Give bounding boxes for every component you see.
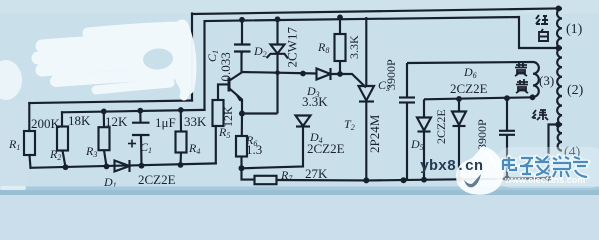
wire: gate wire from collector corner: [242, 72, 317, 74]
wire: outer top rail: [192, 9, 557, 15]
node winding tap (white): [556, 45, 562, 51]
svg-text:2CZ2E: 2CZ2E: [434, 109, 448, 144]
svg-text:(1): (1): [566, 22, 583, 37]
wire: green tap drop: [549, 125, 559, 179]
label yellow wire 1 (huang): [515, 62, 527, 76]
resistor R7 (inline): [255, 176, 277, 184]
svg-text:2CZ2E: 2CZ2E: [138, 172, 176, 187]
white correction scribble over top-left: [38, 26, 190, 96]
node D6 bottom on rail: [456, 176, 462, 182]
node T2 cathode on rail: [363, 177, 369, 183]
node C1-bottom: [139, 163, 145, 169]
white dash bottom-left: [0, 186, 26, 190]
logo: chinese title glyphs (dian zi fa shao you) white halo: [503, 156, 588, 177]
node D2 top on inner rail: [275, 16, 281, 22]
wire: emitter node to zener bottom: [242, 112, 278, 114]
logo: chinese title glyphs blue body: [503, 156, 588, 177]
resistor R3: [99, 111, 110, 166]
wire: R1 bottom lead: [30, 155, 31, 168]
node winding3 bottom: [530, 94, 536, 100]
thyristor T2 (2P24M): [359, 17, 375, 180]
diode D3 (inline, pointing right): [317, 68, 331, 80]
zener diode D2 (2CW17): [267, 19, 289, 113]
transformer main winding: [557, 9, 562, 151]
wire: upper-left horizontal to R1: [29, 101, 192, 104]
node emitter junction: [239, 111, 245, 117]
diode D6 (2CZ2E, pointing down): [452, 99, 466, 179]
svg-text:(3): (3): [539, 73, 554, 88]
node R4-top: [178, 107, 184, 113]
svg-text:3900P: 3900P: [475, 119, 489, 150]
resistor R2: [57, 127, 68, 168]
label white wire (bai): [539, 29, 548, 41]
svg-text:12K: 12K: [221, 106, 235, 127]
bottom scan strip: [0, 187, 599, 196]
node dots: bottom-left rail junctions: [63, 107, 184, 170]
svg-text:(2): (2): [567, 83, 584, 98]
node zener crossing: [275, 70, 280, 75]
svg-text:3.3K: 3.3K: [302, 94, 328, 109]
svg-text:2CZ2E: 2CZ2E: [450, 81, 488, 96]
node C3 bottom on rail: [401, 177, 407, 183]
node R3-bottom: [104, 164, 110, 170]
wire: R6 bottom to D4 bottom: [242, 127, 304, 169]
logo: white leaf: [456, 147, 504, 195]
resistor R5: [213, 84, 229, 126]
node D5 bottom on rail: [421, 177, 427, 183]
svg-text:2CZ2E: 2CZ2E: [307, 141, 345, 156]
wire: R1 top lead: [28, 103, 30, 131]
node R8 top on inner rail: [337, 15, 343, 21]
wire: R4 bottom lead: [179, 153, 182, 165]
label yellow wire 2 (huang): [516, 79, 528, 93]
transistor T1: [229, 53, 242, 114]
wire: R5 top lead to base: [218, 84, 228, 100]
node R8 bottom: [337, 71, 343, 77]
wire: lower yellow wire (B): [424, 97, 533, 99]
wire: R4 top lead: [180, 110, 182, 132]
node R3-top: [101, 109, 107, 115]
wire: bottom rail (R7 rail): [242, 168, 255, 179]
svg-text:www.elecfans.com: www.elecfans.com: [504, 175, 585, 185]
node R2-bottom: [63, 164, 69, 170]
resistor R4: [176, 110, 187, 165]
node C2 top on inner rail: [239, 17, 245, 23]
svg-text:1μF: 1μF: [155, 115, 176, 130]
wire: R3 bottom lead: [104, 150, 107, 166]
wire: R3 top lead: [103, 111, 105, 127]
svg-text:18K: 18K: [68, 113, 91, 128]
svg-text:0.033: 0.033: [218, 52, 233, 81]
wire: R2 bottom lead: [63, 151, 66, 168]
diode D1 (in bottom rail): [115, 160, 130, 172]
diode D4 (2CZ2E, pointing down): [296, 116, 311, 127]
svg-text:1.3: 1.3: [246, 142, 262, 157]
svg-text:2CW17: 2CW17: [285, 27, 300, 68]
label + sign of C1: [128, 140, 136, 148]
transformer winding 3 (small coil): [533, 62, 539, 97]
wire: upper yellow wire (A) to winding 3: [407, 62, 533, 63]
svg-text:12K: 12K: [105, 114, 128, 129]
emitter arrow of T1: [235, 93, 242, 101]
logo: elecfans translucent panel: [495, 147, 599, 188]
wire: R5 bottom lead: [215, 126, 217, 163]
resistor R8: [335, 17, 346, 74]
node winding tap (green): [555, 122, 561, 128]
wire: inner rail: [205, 17, 557, 110]
svg-text:3.3K: 3.3K: [347, 35, 361, 59]
wire: outer-left vertical drop: [191, 14, 193, 101]
resistor R1: [24, 131, 35, 155]
resistor R6: [236, 114, 247, 169]
svg-text:3900P: 3900P: [384, 59, 398, 90]
collector: [230, 53, 242, 81]
capacitor C2 (0.033): [234, 20, 251, 54]
node green tap on rail: [546, 175, 552, 181]
label green wire (lv): [532, 110, 548, 120]
svg-text:ybx8.cn: ybx8.cn: [420, 158, 483, 175]
node C1-top: [137, 108, 143, 114]
wire: D3 cathode to T2 gate: [331, 74, 367, 88]
diode D5 (2CZ2E, pointing down): [417, 99, 431, 179]
wire: R2 top lead: [61, 112, 63, 126]
node D4 top: [300, 71, 306, 77]
wire: bottom rail continued: [277, 178, 549, 180]
capacitor C3 (3900P): [399, 63, 415, 180]
wire: lower-left bias wire: [62, 110, 205, 112]
svg-text:2P24M: 2P24M: [367, 114, 382, 153]
node D6 top: [456, 96, 462, 102]
node C4 bottom on rail: [504, 176, 510, 182]
capacitor C4 (3900P): [499, 98, 515, 178]
hole in scribble: [142, 47, 173, 70]
white blob at left edge: [0, 60, 22, 100]
node C4 top: [504, 95, 510, 101]
svg-text:33K: 33K: [184, 114, 207, 129]
node R4-bottom: [178, 162, 184, 168]
capacitor C1 (1uF electrolytic): [132, 111, 150, 166]
node R6 bottom junction: [239, 165, 245, 171]
label red wire (hong): [536, 15, 548, 24]
node winding top (red): [556, 6, 562, 12]
wire: bottom-left rail: [31, 163, 216, 167]
svg-text:27K: 27K: [305, 166, 328, 181]
emitter: [230, 89, 243, 114]
